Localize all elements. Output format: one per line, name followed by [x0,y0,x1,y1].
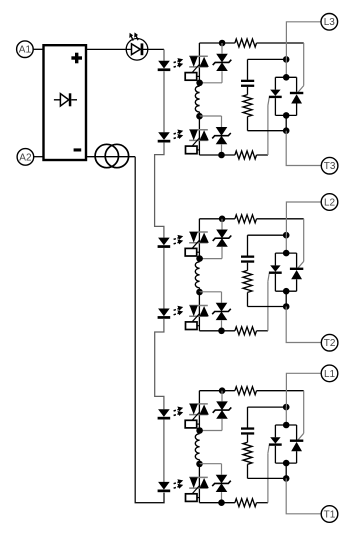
wire A2 to rectifier [34,156,44,158]
wire: snubber return (phase 3) [247,117,249,131]
wire: phototriac U1b feed [198,464,200,503]
resistor gate bottom R (phase 2) [235,327,257,335]
SCR Q3b (right, conducts up) [290,77,303,115]
resistor gate top R (phase 1) [235,387,257,395]
bidirectional TVS D2a [213,230,232,247]
node: bottom trigger node (phase 2) [218,328,225,335]
wire: TVS D2b to bottom rail [221,320,223,331]
terminal L3 [321,13,338,30]
capacitor C1 [241,427,254,429]
wire: TVS to midnode (phase 1) [221,419,223,431]
wire: left SCR gate rise (phase 2) [267,281,269,331]
wire: inductor to bottom node (phase 2) [199,288,201,292]
svg-text:A2: A2 [19,152,32,163]
wire: top node to gate resistor (phase 2) [199,218,235,220]
node: triac bottom (phase 3) [283,112,290,119]
wire: SCR gate drop (phase 3) [303,43,305,86]
phototriac U1a output [189,404,209,415]
wire: bottom resistor to SCR gate (phase 3) [257,154,268,156]
inductor L3 [195,86,199,112]
opto LED D6 [158,482,171,492]
wire: chain drop to LED 1 [163,49,165,61]
wire: left SCR gate rise (phase 3) [267,106,269,156]
phototriac U3a output [189,56,209,67]
node: snubber return node (phase 2) [283,303,290,310]
snubber top wire (phase 2) [248,234,287,236]
terminal A2 [17,149,34,166]
resistor box R2b [186,322,198,330]
wire: snubber return (phase 2) [247,292,249,306]
SCR Q1b (right, conducts up) [290,425,303,463]
wire: LED5 to LED6 [163,420,165,482]
resistor gate top R (phase 3) [235,39,257,47]
wire: line node to capacitor (phase 3) [247,59,249,80]
wire: bottom resistor to SCR gate (phase 1) [257,502,268,504]
node: triac top (phase 1) [283,422,290,429]
snubber resistor R1s [243,442,252,464]
bidirectional TVS D1a [213,401,232,418]
triac pair frame (phase 3) [275,76,296,78]
phototriac U3b output [189,130,209,141]
terminal L2 [321,194,338,211]
wire: node to TVS (phase 2) [221,219,223,230]
wire: left return rail [135,157,164,503]
wire: inductor to bottom node (phase 1) [199,460,201,464]
wire: bottom rail (phase 3) [199,154,235,156]
triac pair frame (phase 2) [275,252,296,254]
bidirectional TVS D3a [213,54,232,71]
node: top trigger node (phase 2) [219,216,226,223]
light arrows D1 [174,58,184,68]
node: top trigger node (phase 1) [219,387,226,394]
snubber top wire (phase 1) [248,406,287,408]
phototriac U2a output [189,232,209,243]
resistor gate bottom R (phase 1) [235,499,257,507]
wire: phototriac feed down (phase 1) [198,391,200,431]
polarity plus mark [71,53,82,64]
terminal T3 [321,157,338,174]
wire rectifier to LED / chain (top) [86,48,164,50]
terminal L1 [321,365,338,382]
wire: bottom node to TVS D3b [200,115,222,117]
svg-text:T1: T1 [324,509,336,520]
node: inductor top (phase 3) [196,80,203,87]
opto LED D2 [158,132,171,142]
diode inside block [54,93,77,106]
light arrows D4 [174,306,184,316]
wire: line feed through triac (phase 2) [285,235,287,253]
svg-text:T2: T2 [324,338,336,349]
wire: TVS to midnode (phase 2) [221,247,223,259]
wire: line feed through triac (phase 3) [285,59,287,77]
bidirectional TVS D3b [212,127,231,144]
SCR Q1a (left, conducts down) [269,425,282,463]
svg-text:T3: T3 [324,161,336,172]
wire: gate resistor to SCR gate (phase 1) [257,390,304,392]
wire: bottom node to TVS D2b [200,291,222,293]
node: inductor top (phase 2) [196,255,203,262]
node: bottom trigger node (phase 1) [218,499,225,506]
current regulator (two circles) [95,144,129,167]
rectifier/control block [44,45,87,160]
opto LED D1 [158,61,171,71]
wire: gate resistor to SCR gate (phase 2) [257,218,304,220]
terminal T2 [321,334,338,351]
light arrows D5 [174,407,184,417]
wire: gate resistor to SCR gate (phase 3) [257,42,304,44]
wire: bottom node to TVS D1b [200,463,222,465]
wire: LED6 to return rail [163,491,165,494]
light arrows D2 [174,130,184,140]
gate lead phototriac U3b [192,137,200,146]
wire: LED1 to LED2 [163,71,165,132]
wire: node to TVS (phase 3) [221,43,223,54]
wire: bottom rail (phase 2) [199,330,235,332]
node: snubber/line node (phase 1) [283,404,290,411]
node: snubber return node (phase 1) [283,475,290,482]
polarity minus mark [74,148,82,151]
opto LED D5 [158,409,171,419]
wire: L1 feed [286,373,321,407]
wire rectifier bottom to current source [86,156,135,158]
node: top trigger node (phase 3) [219,40,226,47]
wire: TVS D3b to bottom rail [221,144,223,155]
wire: phototriac feed down (phase 2) [198,219,200,259]
wire: L2 feed [286,202,321,235]
resistor box R3b [186,146,198,154]
wire: LED3 to LED4 [163,248,165,309]
inductor L1 [195,434,199,460]
node: snubber/line node (phase 3) [283,56,290,63]
resistor box R1a [185,420,197,428]
terminal A1 [17,41,34,58]
node: triac bottom (phase 2) [283,288,290,295]
gate lead phototriac U1a [192,412,200,421]
wire: phototriac feed down (phase 3) [198,43,200,83]
bidirectional TVS D2b [212,303,231,320]
phototriac U1b output [189,477,209,488]
capacitor C3 [241,80,254,82]
resistor box R1b [186,494,198,502]
node: inductor top (phase 1) [196,427,203,434]
node: triac top (phase 2) [283,250,290,257]
node: snubber/line node (phase 2) [283,232,290,239]
node: inductor bottom (phase 3) [196,113,203,120]
wire: triac bottom to return node (phase 3) [285,115,287,130]
wire: SCR gate drop (phase 2) [303,219,305,262]
wire: TVS to midnode (phase 3) [221,71,223,83]
phototriac U2b output [189,306,209,317]
capacitor C2 [241,256,254,258]
wire: bottom resistor to SCR gate (phase 2) [257,330,268,332]
terminal T1 [321,506,338,523]
opto LED D3 [158,238,171,248]
node: triac bottom (phase 1) [283,460,290,467]
SCR Q2b (right, conducts up) [290,253,303,291]
bidirectional TVS D1b [212,475,231,492]
wire: TVS D1b to bottom rail [221,492,223,503]
snubber top wire (phase 3) [248,58,287,60]
triac pair frame (phase 1) [275,424,296,426]
svg-text:L1: L1 [324,369,336,380]
wire: capacitor to resistor (phase 2) [247,263,249,271]
wire: L3 feed [286,22,321,60]
resistor box R2a [185,248,197,256]
indicator LED [126,32,148,60]
SCR Q2a (left, conducts down) [269,253,282,291]
node: inductor bottom (phase 1) [196,461,203,468]
resistor gate bottom R (phase 3) [235,151,257,159]
wire: capacitor to resistor (phase 1) [247,435,249,443]
svg-text:L2: L2 [324,197,336,208]
svg-text:L3: L3 [324,17,336,28]
wire: top node to gate resistor (phase 1) [199,390,235,392]
wire: LED4 chain step to LED5 [155,319,164,409]
wire: line node to capacitor (phase 2) [247,235,249,256]
inductor L2 [195,262,199,288]
resistor box R3a [185,73,197,81]
node: inductor bottom (phase 2) [196,289,203,296]
wire: triac bottom to return node (phase 2) [285,291,287,306]
wire: line node to capacitor (phase 1) [247,407,249,428]
node: triac top (phase 3) [283,74,290,81]
wire: T1 feed [286,478,321,513]
svg-text:A1: A1 [19,45,32,56]
resistor gate top R (phase 2) [235,215,257,223]
gate lead phototriac U2a [192,240,200,249]
snubber resistor R2s [243,270,252,292]
gate lead phototriac U2b [192,313,200,322]
wire: bottom rail (phase 1) [199,502,235,504]
wire: capacitor to resistor (phase 3) [247,87,249,95]
wire: phototriac U3b feed [198,116,200,155]
gate lead phototriac U1b [192,485,200,494]
wire: left SCR gate rise (phase 1) [267,453,269,503]
wire: inductor to bottom node (phase 3) [199,112,201,116]
snubber resistor R3s [243,95,252,117]
node: bottom trigger node (phase 3) [218,152,225,159]
wire: T3 feed [286,131,321,166]
wire: top node to gate resistor (phase 3) [199,42,235,44]
light arrows D6 [174,479,184,489]
wire: snubber return (phase 1) [247,464,249,478]
wire: node to TVS (phase 1) [221,391,223,402]
opto LED D4 [158,309,171,319]
gate lead phototriac U3a [192,64,200,73]
SCR Q3a (left, conducts down) [269,77,282,115]
light arrows D3 [174,235,184,245]
wire: triac bottom to return node (phase 1) [285,463,287,478]
node: snubber return node (phase 3) [283,127,290,134]
wire: SCR gate drop (phase 1) [303,391,305,434]
wire A1 to rectifier [33,48,43,50]
wire: LED2 chain step to LED3 [155,143,164,238]
wire: line feed through triac (phase 1) [285,407,287,425]
wire: phototriac U2b feed [198,292,200,331]
wire: T2 feed [286,307,321,343]
